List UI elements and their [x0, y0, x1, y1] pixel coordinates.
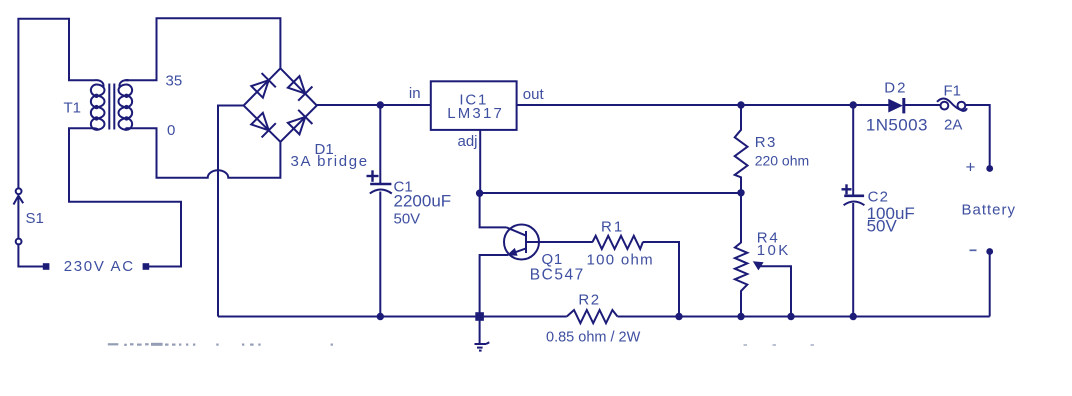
wire: C1 top lead [379, 105, 381, 183]
R4 wiper arrowhead [753, 261, 764, 270]
transistor Q1 circle [504, 225, 539, 260]
wire: bottom bus right of R2 [618, 316, 990, 318]
wire: D2 cathode to F1 [904, 104, 941, 106]
resistor R3 zigzag [735, 130, 748, 178]
wire: adj pin down [479, 130, 481, 193]
bridge D1 diamond [244, 68, 317, 142]
ground bars [475, 343, 487, 345]
resistor R1 zigzag [593, 236, 643, 249]
svg-text:230V AC: 230V AC [64, 258, 135, 275]
wire: pad2 to transformer primary bottom [69, 128, 181, 266]
junction C1 bottom [377, 313, 384, 320]
wire: Q1 emitter slant [507, 249, 526, 256]
wire: C2 top lead [852, 105, 854, 195]
svg-text:3A bridge: 3A bridge [291, 153, 369, 170]
wire: bridge minus to bottom bus [218, 106, 244, 317]
wire: S1 bottom to 230V pad [18, 244, 43, 267]
junction R3 top [737, 101, 744, 108]
transformer T1 secondary winding [119, 80, 128, 87]
bridge diode top-left [251, 80, 268, 98]
C1 plates [370, 183, 391, 186]
R4 wiper [761, 266, 792, 316]
svg-text:C2: C2 [868, 189, 890, 206]
svg-text:in: in [409, 85, 421, 102]
svg-text:LM317: LM317 [447, 105, 504, 122]
secondary top lead [126, 79, 129, 81]
svg-text:1N5003: 1N5003 [866, 116, 928, 135]
svg-text:0.85 ohm / 2W: 0.85 ohm / 2W [546, 329, 641, 345]
wire: IC1 out rail [517, 104, 889, 106]
switch S1 terminals [16, 188, 22, 244]
junction R1/R2 node [675, 313, 682, 320]
resistor R2 zigzag [567, 310, 618, 323]
diode D2 cathode bar [902, 98, 905, 113]
faint erased caption remnants [108, 343, 333, 346]
junction ground node [475, 312, 484, 321]
wire: F1 to battery + [965, 105, 989, 166]
svg-text:220 ohm: 220 ohm [755, 153, 809, 169]
wire: secondary top (35 tap) to bridge top [126, 18, 281, 80]
svg-text:2200uF: 2200uF [394, 192, 452, 211]
svg-text:adj: adj [458, 133, 478, 150]
wire: bottom bus left of R2 [218, 316, 567, 318]
svg-text:F1: F1 [944, 83, 962, 100]
svg-text:2A: 2A [944, 117, 962, 134]
wire: R1 right down to bus [643, 242, 679, 317]
svg-text:out: out [523, 86, 545, 103]
transformer T1 primary winding [95, 80, 104, 87]
wire: C2 bottom lead [852, 203, 854, 317]
svg-text:+: + [966, 158, 976, 177]
Q1 base bar [525, 231, 527, 253]
fuse F1 [937, 98, 967, 110]
wire: C1 bottom lead [379, 192, 381, 317]
svg-text:35: 35 [166, 73, 183, 90]
C2 plates [844, 195, 864, 198]
wire: adj row to R3/R4 junction [480, 192, 741, 194]
wire: Q1 collector [480, 193, 507, 227]
resistor R4 zigzag [735, 243, 747, 292]
pad square right of 230V AC [143, 263, 150, 270]
wire: R4 top lead [740, 193, 742, 243]
wire: R4 bottom lead [740, 291, 742, 317]
diode D2 triangle [888, 99, 903, 113]
svg-text:10K: 10K [757, 242, 791, 259]
svg-text:Battery: Battery [962, 202, 1017, 219]
C2 plus [842, 188, 852, 190]
transformer loop cusps secondary [124, 94, 128, 98]
transformer loop cusps primary [94, 94, 98, 98]
bridge diode bottom-left [251, 113, 268, 130]
battery minus terminal [986, 248, 993, 255]
bridge diode top-right [288, 76, 305, 93]
wire: bus up to battery minus [989, 255, 991, 317]
junction adj node [476, 190, 483, 197]
svg-text:BC547: BC547 [530, 266, 585, 283]
svg-text:D2: D2 [884, 80, 907, 97]
pad square left of 230V AC [43, 263, 50, 270]
junction C1 top [377, 101, 384, 108]
wire: secondary bottom (0 tap) to bridge bottom, with hop [126, 128, 281, 178]
C1 plus [367, 175, 379, 177]
svg-text:R1: R1 [601, 219, 624, 236]
svg-text:R2: R2 [578, 291, 600, 308]
svg-text:S1: S1 [26, 210, 44, 227]
junction R3/R4 node [737, 189, 744, 196]
wire: Q1 base to R1 [527, 241, 593, 243]
Q1 emitter arrowhead [507, 248, 518, 256]
svg-text:T1: T1 [64, 100, 82, 117]
junction C2 top [850, 101, 857, 108]
junction C2 bottom [850, 313, 857, 320]
svg-text:50V: 50V [394, 211, 421, 228]
IC1 LM317 box [431, 81, 517, 130]
junction R4 bottom [737, 313, 744, 320]
label battery minus [970, 249, 977, 251]
switch S1 lever [17, 196, 19, 239]
bridge diode bottom-right [288, 117, 305, 134]
transformer core [108, 84, 110, 130]
wire: collector slant into base bar [507, 227, 526, 235]
wire: R3 top lead [740, 105, 742, 131]
ground stub [479, 317, 481, 344]
svg-text:50V: 50V [867, 217, 898, 236]
filled elements [43, 94, 993, 321]
switch S1 lever arrow [14, 196, 24, 205]
svg-text:R3: R3 [755, 134, 777, 151]
wire: R3 bottom lead [740, 177, 742, 194]
svg-text:0: 0 [167, 122, 175, 139]
wire: emitter to ground rail [480, 255, 507, 317]
wire: bridge plus to IC1 in [317, 104, 431, 106]
wire: S1 top up over to primary top [18, 19, 94, 189]
junction wiper bottom [787, 313, 794, 320]
battery plus terminal [986, 165, 993, 172]
svg-text:100 ohm: 100 ohm [587, 252, 654, 269]
